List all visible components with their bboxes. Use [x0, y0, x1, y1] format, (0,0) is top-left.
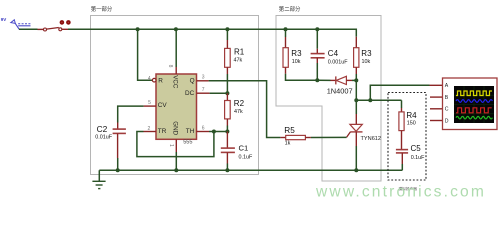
svg-text:4: 4 [148, 76, 151, 82]
svg-text:GND: GND [172, 121, 179, 135]
svg-text:R2: R2 [234, 99, 245, 108]
node top rail junction dots [136, 27, 320, 31]
resistor R5 1k [280, 126, 346, 147]
svg-text:C2: C2 [97, 124, 108, 134]
ground [92, 170, 105, 188]
svg-text:7: 7 [202, 87, 205, 93]
wire pin2 loop to TH node [137, 132, 214, 157]
wire anode node down [355, 80, 357, 100]
svg-text:第一部分: 第一部分 [91, 5, 113, 13]
section box 第二部分 [276, 5, 381, 181]
svg-text:TYN612: TYN612 [361, 136, 382, 142]
svg-text:1: 1 [168, 144, 174, 147]
svg-text:10k: 10k [362, 59, 371, 65]
node scope branch junction [368, 98, 372, 102]
thyristor Q1 TYN612 [347, 100, 381, 170]
node TR TH junction [212, 130, 216, 134]
svg-text:R5: R5 [284, 126, 295, 135]
svg-text:C1: C1 [239, 143, 249, 152]
section box 第一部分 [91, 5, 259, 175]
svg-text:5: 5 [148, 100, 151, 106]
node diode anode junction [354, 78, 358, 82]
capacitor C5 0.1uF [396, 144, 425, 171]
node pin7 junction [225, 91, 229, 95]
wire to R4 [356, 99, 401, 101]
svg-text:R4: R4 [406, 111, 417, 120]
wire pin4 branch [138, 29, 153, 80]
wire VCC top rail [68, 29, 356, 37]
svg-text:0.1uF: 0.1uF [411, 155, 425, 161]
svg-text:47k: 47k [234, 58, 243, 64]
battery BAT1 9V [1, 17, 31, 29]
svg-text:C4: C4 [328, 49, 339, 58]
wire ground rail [99, 169, 402, 171]
wire pin1 GND drop [175, 152, 177, 170]
oscilloscope [430, 78, 498, 130]
svg-text:C5: C5 [411, 144, 422, 153]
svg-text:R: R [158, 77, 163, 84]
svg-text:0.01uF: 0.01uF [95, 134, 112, 140]
svg-text:第二部分: 第二部分 [279, 5, 301, 13]
svg-text:DC: DC [185, 90, 195, 97]
resistor R4 150 [399, 100, 417, 149]
svg-text:Q: Q [190, 77, 195, 84]
svg-text:0.1uF: 0.1uF [239, 154, 253, 160]
svg-text:150: 150 [407, 121, 416, 127]
resistor R1 47k [225, 29, 245, 93]
capacitor C2 0.01uF [95, 123, 126, 171]
svg-text:R3: R3 [361, 49, 372, 58]
switch SW1 [38, 20, 71, 31]
wire pin7 to R1 R2 node [210, 92, 228, 94]
svg-text:1k: 1k [285, 140, 291, 146]
node TH C1 junction [225, 130, 229, 134]
wire battery to switch [19, 28, 38, 30]
node ground rail junctions [116, 168, 359, 172]
svg-text:2: 2 [148, 126, 151, 132]
op 555 timer U1 [144, 67, 210, 152]
svg-text:9V: 9V [1, 17, 7, 22]
svg-text:CV: CV [158, 102, 168, 109]
svg-text:C: C [445, 107, 449, 113]
svg-text:R3: R3 [291, 49, 302, 58]
resistor R2 47k [225, 93, 245, 131]
svg-text:TR: TR [158, 128, 167, 135]
svg-text:6: 6 [202, 126, 205, 132]
svg-text:D: D [445, 118, 449, 124]
svg-text:VCC: VCC [172, 75, 179, 89]
wire pin3 output to R5 [209, 81, 281, 138]
capacitor C1 0.1uF [221, 132, 253, 171]
svg-text:A: A [445, 83, 449, 89]
svg-text:www.cntronics.com: www.cntronics.com [315, 184, 486, 201]
svg-text:47k: 47k [234, 109, 243, 115]
svg-text:TH: TH [186, 128, 195, 135]
node SCR anode junction [354, 98, 358, 102]
svg-text:R1: R1 [234, 47, 245, 56]
wire pin6 to TH node [209, 131, 227, 133]
svg-text:555: 555 [183, 139, 192, 145]
wire pin8 VCC drop [175, 29, 177, 67]
svg-text:10k: 10k [292, 59, 301, 65]
node C4 bottom junction [315, 78, 319, 82]
svg-text:0.001uF: 0.001uF [328, 59, 348, 65]
resistor R3 10k left [283, 29, 317, 80]
wire to oscilloscope A [370, 85, 429, 100]
capacitor C4 0.001uF [311, 29, 349, 80]
svg-text:8: 8 [167, 65, 173, 68]
dashed box speaker group [388, 93, 426, 191]
svg-text:1N4007: 1N4007 [327, 86, 353, 95]
resistor R3 10k right [354, 37, 372, 81]
svg-text:3: 3 [202, 74, 205, 80]
wire pin5 to C2 [118, 106, 144, 122]
svg-text:B: B [445, 95, 449, 101]
diode D1 1N4007 [317, 76, 356, 95]
